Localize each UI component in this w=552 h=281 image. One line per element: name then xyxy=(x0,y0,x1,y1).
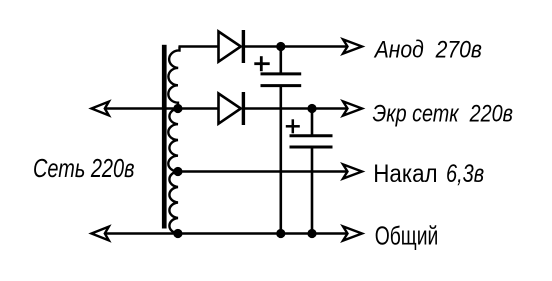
polarity plus C2 xyxy=(286,119,300,133)
node: winding end on common rail xyxy=(173,229,182,238)
terminal arrow right (heater) xyxy=(343,164,362,178)
node: screen rail / C2 junction xyxy=(307,104,316,113)
node: C2 on common rail xyxy=(307,229,316,238)
polarity plus C1 xyxy=(254,56,269,71)
wire rail B (screen grid) from left arrow through transformer to arrow xyxy=(104,107,219,110)
node: winding tap rail B xyxy=(173,104,182,113)
terminal arrow right (common) xyxy=(343,226,362,240)
svg-text:Сеть 220в: Сеть 220в xyxy=(33,153,135,183)
terminal arrow left (mains line 1) xyxy=(92,102,109,116)
wire rail D (common) from left arrow to right arrow xyxy=(104,232,348,235)
capacitor C1 (anode filter) xyxy=(261,47,302,234)
svg-text:6,3в: 6,3в xyxy=(446,160,484,188)
terminal arrow right (anode) xyxy=(343,39,362,53)
wire rail C (heater) from winding tap to arrow xyxy=(178,170,348,173)
svg-text:Накал: Накал xyxy=(373,160,437,188)
node: anode rail / C1 junction xyxy=(276,42,285,51)
transformer core T1 xyxy=(162,45,167,229)
svg-text:Анод 270в: Анод 270в xyxy=(373,36,482,63)
svg-text:Общий: Общий xyxy=(375,223,439,251)
wire rail A (anode) from winding top to arrow xyxy=(179,45,219,48)
terminal arrow right (screen) xyxy=(343,101,362,115)
capacitor C2 (screen filter) xyxy=(290,109,333,234)
node: C1 on common rail xyxy=(276,229,285,238)
terminal arrow left (mains line 2) xyxy=(92,227,109,241)
diode D1 xyxy=(219,30,244,63)
transformer winding T1 xyxy=(168,47,179,234)
diode D2 xyxy=(219,92,244,125)
node: winding tap rail C xyxy=(173,167,182,176)
svg-text:Экр сетк 220в: Экр сетк 220в xyxy=(373,100,514,127)
